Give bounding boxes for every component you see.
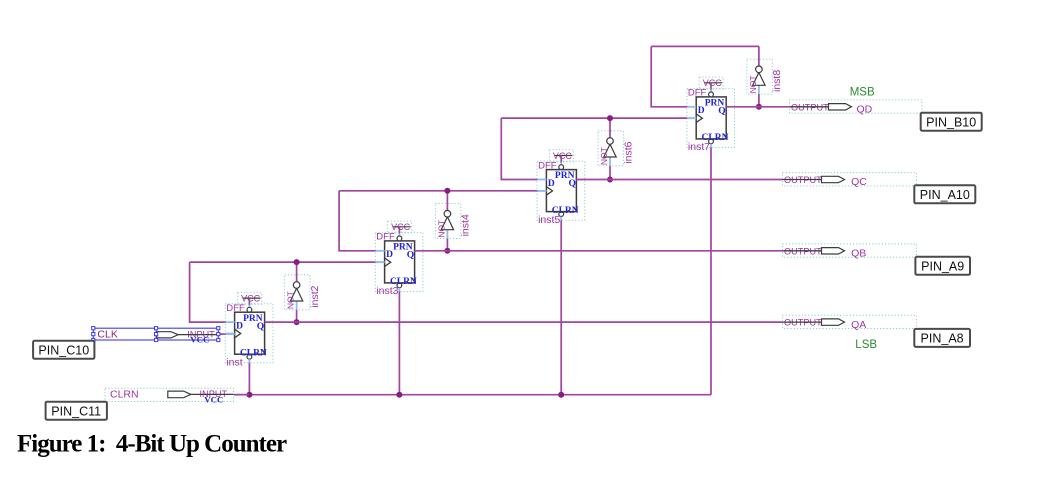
svg-text:D: D [386, 250, 393, 260]
svg-text:VCC: VCC [204, 395, 223, 405]
svg-text:inst8: inst8 [771, 70, 783, 92]
output pin QA [783, 315, 917, 331]
svg-text:inst3: inst3 [376, 285, 398, 297]
svg-text:MSB: MSB [850, 87, 875, 99]
wire: CLRN of inst3 down to clear bus [398, 292, 400, 395]
input pin CLK (selected) [93, 328, 234, 344]
svg-text:D: D [548, 179, 555, 189]
wire: feedback down to D of inst5 [501, 118, 537, 179]
svg-text:LSB: LSB [855, 339, 877, 351]
svg-text:Q: Q [407, 251, 414, 261]
node: junction NOT inst6 output [607, 115, 613, 121]
svg-text:QC: QC [851, 176, 867, 188]
VCC symbol above inst7 [699, 77, 723, 93]
svg-text:inst: inst [226, 356, 242, 368]
svg-text:inst4: inst4 [460, 214, 472, 236]
input pin CLRN [105, 388, 249, 404]
svg-text:D: D [698, 106, 705, 116]
svg-text:PIN_C10: PIN_C10 [38, 343, 89, 357]
svg-text:QA: QA [851, 319, 866, 331]
svg-text:NOT: NOT [286, 291, 296, 309]
wire: NOT inst4 output feedback (y=191) [339, 190, 537, 192]
svg-text:NOT: NOT [748, 75, 758, 93]
NOT gate inst8 [747, 46, 783, 106]
svg-text:Q: Q [569, 179, 576, 189]
svg-text:inst7: inst7 [688, 141, 710, 153]
pin assignment label PIN_C10 [33, 341, 94, 359]
wire: CLRN of inst5 down to clear bus [560, 220, 562, 395]
D flip-flop inst7 (DFF) [687, 88, 735, 153]
svg-text:inst5: inst5 [538, 214, 560, 226]
pin assignment label PIN_A10 [914, 185, 975, 203]
svg-text:Q: Q [257, 322, 264, 332]
svg-text:PIN_A9: PIN_A9 [921, 259, 964, 273]
wire: Q of inst7 to output (y=107) [726, 106, 789, 108]
node: junction NOT inst2 input on Q wire [294, 319, 300, 325]
node: junction NOT inst6 input on Q wire [607, 177, 613, 183]
output pin QB [783, 244, 917, 260]
selection handles of input pin CLK [92, 327, 220, 342]
node: junction clear bus at inst [246, 392, 252, 398]
D flip-flop inst (DFF) [225, 303, 273, 368]
wire: feedback down to D of inst [190, 262, 226, 322]
VCC symbol above inst3 [388, 221, 412, 237]
svg-text:inst6: inst6 [622, 141, 634, 163]
svg-text:QD: QD [857, 104, 873, 116]
node: junction NOT inst4 input on Q wire [444, 248, 450, 254]
svg-text:PIN_B10: PIN_B10 [926, 115, 976, 129]
wire: CLRN of inst7 down to clear bus corner [710, 148, 712, 395]
output pin QD [790, 100, 923, 116]
wire stub: clock of inst3 [376, 261, 385, 263]
wire: NOT inst6 output feedback (y=118) [501, 117, 687, 119]
node: junction NOT inst2 output [294, 259, 300, 265]
pin assignment label PIN_A9 [915, 257, 970, 275]
svg-text:DFF: DFF [226, 303, 245, 314]
pin assignment label PIN_C11 [46, 402, 107, 420]
wire stub: clock of inst5 [537, 190, 546, 192]
svg-text:DFF: DFF [538, 160, 557, 171]
VCC symbol above inst5 [549, 150, 573, 166]
svg-text:CLRN: CLRN [110, 389, 139, 401]
wire: Q of inst3 to output (y=251) [415, 250, 783, 252]
pin assignment label PIN_B10 [921, 113, 982, 131]
svg-text:D: D [236, 321, 243, 331]
svg-text:NOT: NOT [436, 220, 446, 238]
svg-text:PIN_C11: PIN_C11 [51, 404, 101, 418]
wire: Q of inst to output (y=322) [265, 321, 783, 323]
node: junction NOT inst8 input on Q wire [756, 104, 762, 110]
wire stub: clock of inst7 [687, 117, 696, 119]
wire: CLRN of inst down to clear bus [248, 363, 250, 395]
node: junction clear bus at inst3 [396, 392, 402, 398]
svg-text:PIN_A8: PIN_A8 [921, 332, 964, 346]
VCC symbol above inst [238, 292, 262, 308]
svg-text:Figure 1: 4-Bit Up Counter: Figure 1: 4-Bit Up Counter [17, 430, 287, 457]
svg-text:DFF: DFF [688, 88, 707, 99]
wire: NOT inst2 output feedback (y=262) [190, 261, 376, 263]
D flip-flop inst5 (DFF) [537, 160, 585, 225]
svg-text:Q: Q [718, 107, 725, 117]
pin assignment label PIN_A8 [914, 329, 970, 347]
svg-text:inst2: inst2 [309, 285, 321, 307]
svg-text:DFF: DFF [376, 232, 395, 243]
wire: NOT inst8 output feedback (y=46) [651, 45, 759, 47]
wire: feedback down to D of inst7 [651, 46, 687, 106]
D flip-flop inst3 (DFF) [375, 232, 423, 297]
node: junction clear bus at inst5 [558, 392, 564, 398]
wire: CLRN clear bus horizontal [234, 394, 712, 396]
svg-text:PIN_A10: PIN_A10 [920, 188, 970, 202]
svg-text:QB: QB [851, 248, 866, 260]
NOT gate inst4 [435, 191, 471, 251]
svg-text:CLRN: CLRN [240, 348, 267, 358]
wire: Q of inst5 to output (y=180) [576, 179, 782, 181]
wire: feedback down to D of inst3 [339, 191, 376, 251]
node: junction NOT inst4 output [444, 188, 450, 194]
NOT gate inst6 [598, 118, 634, 179]
NOT gate inst2 [285, 262, 321, 322]
output pin QC [783, 173, 917, 189]
svg-text:VCC: VCC [190, 335, 209, 345]
svg-text:CLK: CLK [97, 328, 117, 340]
svg-text:NOT: NOT [599, 147, 609, 165]
